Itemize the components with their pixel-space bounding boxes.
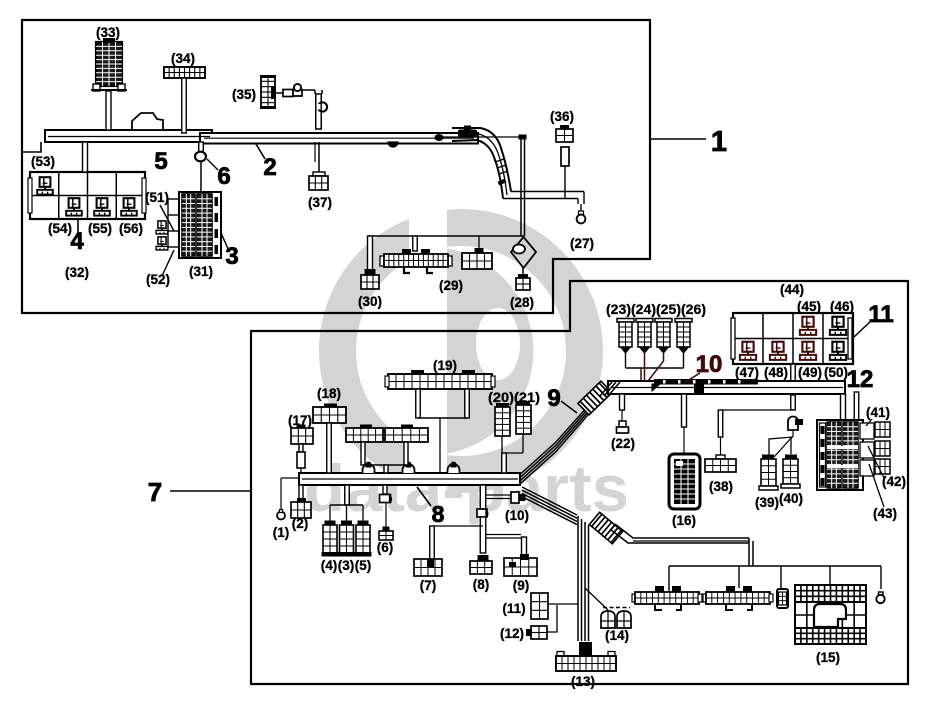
svg-text:(19): (19) <box>433 358 457 373</box>
svg-text:5: 5 <box>154 148 167 175</box>
svg-text:(46): (46) <box>830 299 854 314</box>
svg-text:12: 12 <box>847 366 874 393</box>
svg-text:4: 4 <box>70 228 84 255</box>
svg-text:1: 1 <box>711 126 727 158</box>
svg-text:(34): (34) <box>171 51 195 66</box>
svg-text:9: 9 <box>547 385 560 412</box>
svg-text:(17): (17) <box>288 413 312 428</box>
svg-text:(23)(24)(25)(26): (23)(24)(25)(26) <box>606 302 706 317</box>
svg-text:(41): (41) <box>866 405 890 420</box>
svg-text:(5): (5) <box>355 558 372 573</box>
svg-text:(3): (3) <box>338 558 355 573</box>
svg-text:(32): (32) <box>65 265 89 280</box>
svg-text:(29): (29) <box>439 278 463 293</box>
svg-text:11: 11 <box>868 301 893 328</box>
svg-text:(9): (9) <box>513 578 530 593</box>
svg-text:(39): (39) <box>755 495 779 510</box>
svg-text:data-parts: data-parts <box>304 451 629 525</box>
svg-text:(4): (4) <box>321 558 338 573</box>
svg-text:(28): (28) <box>510 295 534 310</box>
svg-text:(20)(21): (20)(21) <box>488 390 540 405</box>
svg-text:(6): (6) <box>377 540 394 555</box>
svg-text:(12): (12) <box>500 626 524 641</box>
svg-text:(11): (11) <box>502 601 525 616</box>
svg-text:(7): (7) <box>420 578 437 593</box>
svg-text:(45): (45) <box>797 299 821 314</box>
svg-text:(53): (53) <box>31 154 55 169</box>
svg-text:6: 6 <box>217 163 230 190</box>
svg-text:(52): (52) <box>146 272 170 287</box>
svg-text:(56): (56) <box>119 221 143 236</box>
svg-text:(49): (49) <box>798 365 822 380</box>
svg-text:(43): (43) <box>873 506 897 521</box>
svg-text:(13): (13) <box>571 674 595 689</box>
svg-text:(37): (37) <box>308 195 332 210</box>
svg-text:(27): (27) <box>570 236 594 251</box>
svg-text:7: 7 <box>148 477 162 507</box>
svg-text:8: 8 <box>432 501 445 527</box>
svg-text:(31): (31) <box>189 264 213 279</box>
svg-text:(30): (30) <box>358 294 382 309</box>
svg-text:(54): (54) <box>48 221 72 236</box>
svg-text:(33): (33) <box>96 25 120 40</box>
svg-text:(47): (47) <box>735 365 759 380</box>
svg-text:(18): (18) <box>317 386 341 401</box>
svg-text:(16): (16) <box>672 513 696 528</box>
svg-text:(44): (44) <box>780 282 804 297</box>
svg-text:(22): (22) <box>611 436 635 451</box>
svg-text:(51): (51) <box>145 190 169 205</box>
svg-text:(42): (42) <box>882 474 906 489</box>
svg-text:(36): (36) <box>550 109 574 124</box>
svg-text:(55): (55) <box>88 221 112 236</box>
svg-text:(15): (15) <box>816 650 840 665</box>
svg-text:(1): (1) <box>273 525 290 540</box>
svg-text:(48): (48) <box>764 365 788 380</box>
svg-text:(50): (50) <box>824 365 848 380</box>
svg-text:(14): (14) <box>605 628 629 643</box>
svg-text:(38): (38) <box>709 479 733 494</box>
svg-text:(35): (35) <box>232 87 256 102</box>
svg-text:(40): (40) <box>779 491 803 506</box>
svg-text:(8): (8) <box>473 577 490 592</box>
svg-text:(10): (10) <box>505 508 529 523</box>
svg-text:(2): (2) <box>292 516 309 531</box>
